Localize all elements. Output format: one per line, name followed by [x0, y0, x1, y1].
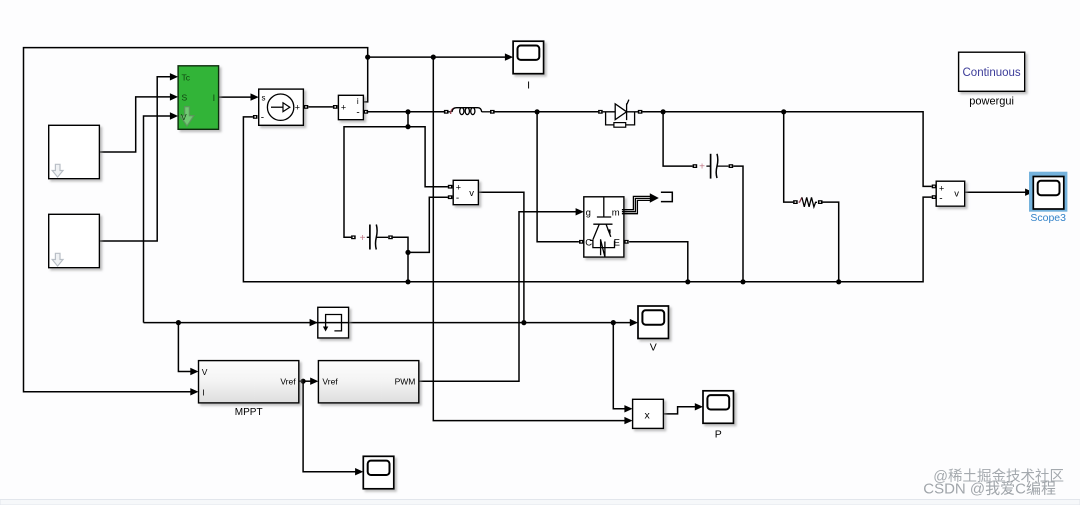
- svg-text:powergui: powergui: [969, 96, 1014, 108]
- arrow: into P scope: [695, 403, 703, 410]
- wire: voltage bus up to PV block V input: [144, 116, 171, 323]
- wire: voltmeter v out down: [478, 192, 524, 322]
- svg-text:MPPT: MPPT: [235, 407, 263, 418]
- svg-text:+: +: [341, 103, 346, 113]
- output voltmeter: [936, 181, 965, 206]
- Scope V: [638, 306, 669, 339]
- node: output node at diode: [661, 109, 666, 114]
- arrow: into PWM Vref: [310, 378, 318, 385]
- port: C2 left: [693, 164, 698, 168]
- svg-text:-: -: [456, 193, 459, 204]
- svg-text:m: m: [612, 208, 620, 219]
- node: V-bus to MPPT: [176, 320, 181, 325]
- wire: output voltmeter to Scope3: [965, 191, 1026, 193]
- svg-text:+: +: [295, 102, 300, 112]
- svg-text:S: S: [182, 92, 188, 102]
- PWM generator block: [318, 361, 418, 403]
- arrow: into MPPT V: [190, 368, 198, 375]
- input capacitor C1: [360, 225, 388, 250]
- port: current meas +: [333, 105, 338, 109]
- sample-hold block: [318, 307, 349, 338]
- svg-text:V: V: [181, 112, 187, 122]
- svg-text:Continuous: Continuous: [963, 67, 1021, 79]
- arrow: into sample block: [310, 319, 318, 326]
- node: bus at load resistor: [836, 279, 841, 284]
- MPPT controller block: [199, 361, 299, 403]
- wire: main line i-block to inductor: [366, 111, 444, 113]
- svg-text:x: x: [645, 409, 651, 421]
- wire: PV block I out to controlled current source s: [219, 96, 252, 98]
- svg-text:Vref: Vref: [322, 377, 338, 387]
- inductor L: [449, 108, 491, 115]
- svg-text:-: -: [356, 107, 359, 118]
- wire: junction I to Scope I: [368, 56, 506, 58]
- wire: input capacitor right down to bus: [393, 237, 408, 281]
- product block: [633, 399, 664, 428]
- wire: branch down to product in1: [613, 323, 625, 409]
- load resistor R: [799, 197, 817, 207]
- port: R left: [793, 200, 798, 204]
- arrow: into MPPT I: [190, 388, 198, 395]
- arrow: into Vref scope: [355, 468, 363, 475]
- port: current source + out: [304, 105, 309, 109]
- arrow: into current source s: [251, 93, 259, 100]
- wire: diode out to output v+: [642, 112, 932, 187]
- svg-text:I: I: [527, 80, 530, 92]
- Scope P: [703, 391, 734, 424]
- wire: From File1 to S input: [99, 97, 170, 152]
- wire: voltage bus to V scope: [144, 322, 631, 324]
- diode D with snubber: [603, 100, 638, 128]
- svg-text:v: v: [469, 188, 474, 199]
- port: inductor left: [444, 110, 449, 114]
- node: bus at PV-: [405, 279, 410, 284]
- svg-text:+: +: [360, 233, 366, 244]
- PV voltmeter: [453, 180, 478, 204]
- wire: IGBT E to bus: [629, 242, 688, 282]
- node: V-bus at product tap: [611, 320, 616, 325]
- svg-text:I: I: [202, 387, 204, 397]
- node: I to product tap: [431, 55, 436, 60]
- arrow: into Scope3: [1025, 189, 1033, 196]
- port: R right: [818, 200, 823, 204]
- port: diode anode: [598, 110, 603, 114]
- port: output voltmeter -: [932, 195, 937, 199]
- wire: ground bus: [243, 117, 931, 282]
- wire: tap left to input capacitor: [344, 127, 408, 238]
- node: V-bus at voltmeter drop: [521, 320, 526, 325]
- wire: MPPT Vref to PWM: [299, 380, 311, 382]
- wire: PWM out up to IGBT gate: [419, 212, 576, 381]
- port: current meas -: [364, 110, 369, 114]
- From File block 2: [49, 214, 100, 267]
- svg-text:Vref: Vref: [280, 377, 296, 387]
- svg-text:C: C: [585, 237, 592, 248]
- From File block 1: [49, 125, 100, 178]
- wire: current source + to current measurement +: [308, 106, 333, 108]
- arrow: into PV V: [170, 112, 178, 119]
- wire: tap right to voltmeter +: [408, 127, 448, 187]
- bottom status strip: [0, 500, 1080, 505]
- node: Vref tap: [301, 379, 306, 384]
- wire: output capacitor down to bus: [733, 166, 743, 282]
- PV array block (green): [178, 66, 219, 130]
- wire: top I-feedback loop (i out up, left, down to MPPT I): [24, 48, 368, 392]
- port: diode cathode: [638, 110, 643, 114]
- port: C1 left: [351, 235, 356, 239]
- node: switch node: [535, 109, 540, 114]
- wire: I signal down to product in2: [433, 57, 625, 421]
- powergui block: [959, 52, 1025, 91]
- port: IGBT C: [579, 240, 584, 244]
- Scope Vref: [363, 456, 394, 489]
- svg-text:+: +: [456, 183, 461, 193]
- wire: output node down to load resistor: [784, 112, 793, 202]
- node: output node at resistor branch: [781, 109, 786, 114]
- port: C2 right: [729, 164, 734, 168]
- arrow: into PV Tc: [170, 73, 178, 80]
- Scope I: [513, 41, 544, 73]
- wire: product out to P scope: [663, 407, 695, 414]
- wire: load resistor down to bus: [823, 202, 839, 282]
- arrow: into IGBT g: [576, 208, 584, 215]
- output capacitor C2: [699, 154, 728, 179]
- svg-text:-: -: [261, 112, 264, 123]
- wire: PV- tap to voltmeter -: [408, 197, 448, 252]
- node: PV+ tap: [405, 124, 410, 129]
- svg-text:-: -: [939, 194, 942, 205]
- node: bus at IGBT E: [685, 279, 690, 284]
- arrow: into V scope: [630, 319, 638, 326]
- svg-text:I: I: [213, 93, 216, 103]
- wire: inductor to diode: [490, 111, 598, 113]
- arrow: into product in1: [624, 405, 632, 412]
- svg-text:PWM: PWM: [395, 377, 416, 387]
- svg-text:V: V: [202, 367, 208, 377]
- wire: node down to PV+ tap: [407, 112, 409, 127]
- wire: Vref branch down to scope: [303, 381, 356, 472]
- svg-text:V: V: [650, 342, 657, 354]
- wire: From File2 to Tc input: [99, 77, 170, 241]
- port: current source -: [253, 115, 258, 119]
- svg-text:i: i: [357, 97, 359, 106]
- port: IGBT E: [624, 240, 629, 244]
- svg-text:CSDN @我爱C编程: CSDN @我爱C编程: [923, 481, 1056, 498]
- svg-text:Scope3: Scope3: [1030, 212, 1066, 224]
- Scope3 selected highlight: [1029, 172, 1067, 212]
- wire: output node down to output capacitor: [663, 112, 693, 166]
- port: PV voltmeter +: [448, 185, 453, 189]
- svg-text:+: +: [939, 183, 944, 193]
- svg-text:s: s: [262, 94, 266, 103]
- svg-text:Tc: Tc: [182, 72, 191, 82]
- svg-text:+: +: [699, 162, 705, 173]
- node: PV- tap: [405, 250, 410, 255]
- arrow: into Scope I: [505, 53, 513, 60]
- wire: switch node down to IGBT C: [537, 112, 579, 242]
- svg-text:v: v: [954, 189, 959, 200]
- controlled current source: [259, 89, 304, 125]
- svg-text:g: g: [586, 208, 591, 219]
- arrow: into PV S: [170, 93, 178, 100]
- wire: branch down to MPPT V input: [178, 323, 191, 372]
- svg-text:P: P: [715, 428, 722, 440]
- node: i-out junction: [365, 55, 370, 60]
- port: inductor right: [490, 110, 495, 114]
- port: C1 right: [388, 235, 393, 239]
- current measurement block: [338, 95, 363, 119]
- port: PV voltmeter -: [448, 195, 453, 199]
- arrow: into product in2: [624, 417, 632, 424]
- wire: V signal crossing over sample block: [317, 322, 349, 324]
- IGBT switch block: [584, 197, 624, 258]
- node: PV+ main: [405, 109, 410, 114]
- bus terminator: [661, 192, 672, 201]
- Scope3: [1033, 177, 1064, 210]
- port: output voltmeter +: [932, 185, 937, 189]
- IGBT m measurement ribbon: [622, 193, 659, 214]
- node: bus at output cap: [740, 279, 745, 284]
